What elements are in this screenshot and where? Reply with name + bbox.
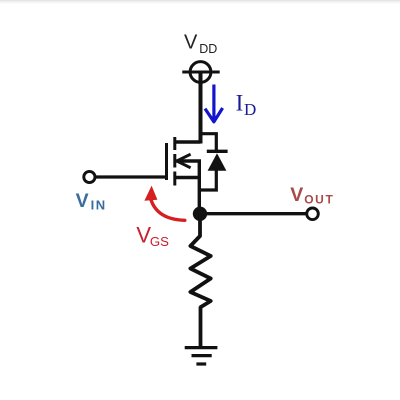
- transistor M1 (NMOS) gate bar: [165, 143, 168, 180]
- power terminal VDD: [182, 62, 219, 83]
- wire resistor to ground: [199, 307, 203, 348]
- ground: [185, 348, 218, 364]
- node A (output junction): [193, 207, 207, 221]
- svg-text:OUT: OUT: [304, 193, 333, 207]
- wire VDD to drain: [199, 72, 203, 144]
- svg-text:DD: DD: [199, 42, 217, 56]
- body diode D1 triangle: [208, 153, 227, 171]
- transistor M1 drain lead: [175, 140, 201, 143]
- label VDD: [184, 32, 217, 56]
- current arrow ID: [205, 85, 223, 122]
- transistor M1 body lead with arrow: [177, 154, 200, 214]
- svg-text:V: V: [184, 32, 198, 54]
- voltage arrow VGS: [150, 198, 185, 221]
- transistor M1 channel segments: [173, 137, 176, 186]
- svg-text:I: I: [236, 90, 244, 115]
- svg-text:D: D: [244, 100, 256, 119]
- terminal VIN: [84, 171, 95, 182]
- body diode D1 branch top wire: [201, 134, 217, 151]
- svg-text:GS: GS: [150, 234, 169, 249]
- label VOUT: [290, 184, 333, 207]
- label VGS: [136, 222, 169, 249]
- terminal VOUT: [307, 208, 319, 220]
- faint top edge line: [0, 0, 400, 1]
- svg-text:V: V: [290, 184, 303, 206]
- svg-text:V: V: [76, 190, 89, 212]
- body diode D1 cathode bar: [207, 150, 228, 153]
- wire node to VOUT: [200, 212, 307, 215]
- label VIN: [76, 190, 106, 213]
- wire VIN to gate: [95, 175, 165, 178]
- transistor M1 source lead: [175, 176, 200, 179]
- label ID: [236, 90, 257, 119]
- svg-text:IN: IN: [91, 198, 106, 213]
- body diode D1 branch bottom wire: [199, 171, 216, 191]
- resistor R1: [190, 214, 210, 308]
